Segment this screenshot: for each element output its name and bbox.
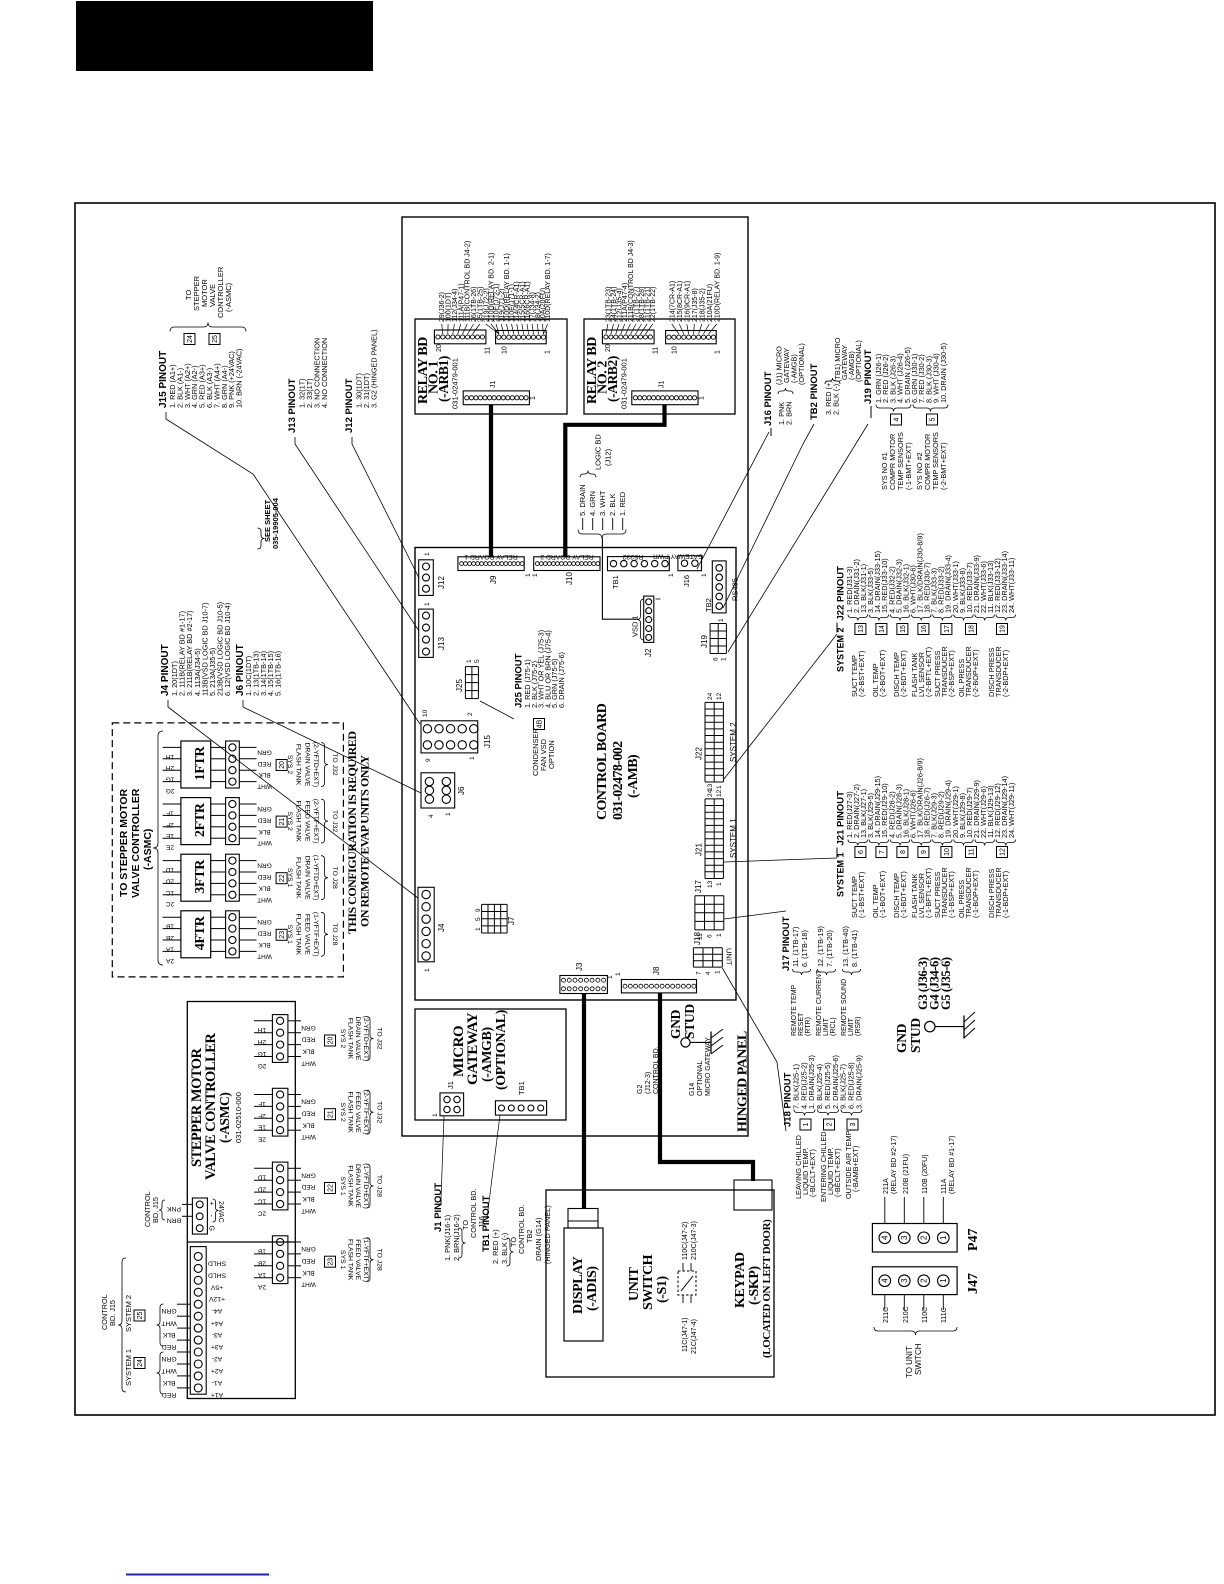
svg-text:SWITCH: SWITCH — [914, 1343, 923, 1375]
svg-text:216(9CR-A1): 216(9CR-A1) — [684, 281, 691, 322]
svg-text:6. 12(VSD LOGIC BD J10-4): 6. 12(VSD LOGIC BD J10-4) — [223, 603, 232, 696]
svg-text:(-2-BST+EXT): (-2-BST+EXT) — [857, 651, 866, 697]
valve unit 1FTR — [181, 741, 211, 788]
svg-text:TB2: TB2 — [704, 598, 713, 612]
svg-text:10: 10 — [672, 346, 679, 354]
svg-text:J15: J15 — [483, 735, 492, 748]
svg-text:(-2-BMT+EXT): (-2-BMT+EXT) — [939, 442, 948, 490]
svg-text:1: 1 — [466, 659, 473, 663]
gnd stud hinged panel — [681, 1038, 690, 1047]
svg-text:1: 1 — [525, 573, 532, 577]
connector J21 grid system 1 — [704, 799, 706, 879]
svg-text:CONTROL BD.: CONTROL BD. — [517, 1204, 526, 1254]
svg-text:22: 22 — [279, 874, 286, 882]
svg-text:4: 4 — [881, 1235, 890, 1240]
svg-text:(2-YFTF+EXT): (2-YFTF+EXT) — [362, 1090, 369, 1135]
svg-text:BLK: BLK — [258, 941, 271, 948]
svg-text:1: 1 — [701, 573, 708, 577]
1FTR connector — [226, 741, 240, 788]
svg-text:4: 4 — [881, 1278, 890, 1283]
svg-text:1: 1 — [716, 933, 723, 937]
svg-text:6. (1TB-18): 6. (1TB-18) — [800, 930, 809, 967]
3FTR wires — [239, 860, 256, 862]
svg-text:J6: J6 — [457, 786, 466, 795]
svg-text:24. WHT(J33-11): 24. WHT(J33-11) — [1007, 558, 1016, 613]
connector J8 on control board — [621, 980, 696, 993]
svg-text:(J12): (J12) — [604, 448, 613, 466]
micro gateway (-AMGB) box — [415, 1009, 566, 1120]
svg-text:13. (1TB-40): 13. (1TB-40) — [841, 926, 850, 967]
svg-text:215(8CR-A1): 215(8CR-A1) — [677, 281, 684, 322]
svg-text:3. WHT: 3. WHT — [598, 490, 607, 516]
svg-text:BLK: BLK — [162, 1331, 175, 1338]
svg-text:J25: J25 — [455, 679, 464, 692]
svg-text:(-2-BSP+EXT): (-2-BSP+EXT) — [947, 650, 956, 697]
svg-text:10: 10 — [422, 709, 429, 717]
svg-text:GRN: GRN — [301, 1245, 316, 1252]
svg-text:2. RED (+): 2. RED (+) — [491, 1229, 500, 1264]
svg-text:(-1-BOT+EXT): (-1-BOT+EXT) — [878, 871, 887, 918]
logic bd brace upper — [580, 471, 596, 478]
svg-text:TO STEPPER MOTOR: TO STEPPER MOTOR — [118, 788, 130, 897]
connector J47 — [872, 1267, 957, 1295]
svg-text:19: 19 — [1000, 625, 1007, 633]
svg-text:(-2-BFTL+EXT): (-2-BFTL+EXT) — [924, 647, 933, 697]
svg-text:FEED VALVE: FEED VALVE — [354, 1092, 361, 1133]
svg-text:J47: J47 — [966, 1273, 981, 1294]
svg-text:2E: 2E — [257, 1136, 266, 1143]
svg-text:1: 1 — [475, 927, 482, 931]
3FTR ref box 22 — [276, 873, 287, 884]
svg-text:DRAIN VALVE: DRAIN VALVE — [303, 743, 310, 787]
svg-text:3FTR: 3FTR — [193, 859, 208, 894]
svg-text:2: 2 — [920, 1278, 929, 1283]
relay board 1 connector J1 — [463, 391, 529, 405]
connector J4 on control board — [418, 887, 434, 962]
svg-text:J19 PINOUT: J19 PINOUT — [863, 349, 874, 404]
svg-text:1: 1 — [803, 1122, 810, 1126]
svg-text:1: 1 — [432, 1113, 439, 1117]
svg-text:DISPLAY: DISPLAY — [571, 1256, 586, 1314]
svg-text:3. G2 (HINGED PANEL): 3. G2 (HINGED PANEL) — [370, 329, 379, 408]
svg-text:1: 1 — [615, 972, 622, 976]
svg-text:J12: J12 — [437, 576, 446, 589]
svg-text:1B: 1B — [258, 1247, 266, 1254]
svg-text:J3: J3 — [575, 962, 584, 971]
svg-text:A4-: A4- — [212, 1307, 223, 1314]
system 1 ref box 24 — [134, 1358, 145, 1369]
svg-text:TB2: TB2 — [525, 1230, 534, 1243]
svg-text:1: 1 — [699, 396, 706, 400]
2FTR connector — [226, 798, 240, 845]
svg-text:FEED VALVE: FEED VALVE — [354, 1239, 361, 1280]
svg-text:(-ASMC): (-ASMC) — [217, 1093, 232, 1143]
svg-text:9: 9 — [921, 850, 928, 854]
svg-text:1: 1 — [939, 1235, 948, 1240]
svg-text:8: 8 — [900, 850, 907, 854]
svg-text:OPTION: OPTION — [547, 740, 556, 769]
svg-text:GND: GND — [894, 1023, 909, 1053]
svg-text:10. DRAIN (J30-5): 10. DRAIN (J30-5) — [939, 343, 948, 403]
svg-text:2F: 2F — [258, 1112, 266, 1119]
system 2 group brace — [157, 1304, 164, 1346]
svg-text:ON REMOTE EVAP UNITS ONLY: ON REMOTE EVAP UNITS ONLY — [358, 755, 372, 927]
svg-text:2E: 2E — [165, 844, 174, 851]
svg-text:TO UNIT: TO UNIT — [905, 1346, 914, 1378]
svg-text:(-1-BST+EXT): (-1-BST+EXT) — [857, 872, 866, 918]
svg-text:A1+: A1+ — [211, 1391, 223, 1398]
svg-text:111C: 111C — [941, 1307, 948, 1323]
svg-text:25: 25 — [212, 335, 219, 343]
svg-text:A2+: A2+ — [211, 1367, 223, 1374]
svg-text:GRN: GRN — [301, 1171, 316, 1178]
svg-text:(-ASMC): (-ASMC) — [142, 829, 154, 870]
relay board 2 (-ARB2) outline — [584, 319, 735, 414]
svg-text:FLASH TANK: FLASH TANK — [347, 1239, 354, 1281]
micro gateway terminal TB1 — [495, 1101, 546, 1115]
svg-text:(-AMB): (-AMB) — [626, 754, 641, 798]
svg-text:2G: 2G — [166, 787, 175, 794]
svg-text:TB1: TB1 — [611, 575, 620, 589]
svg-text:BLK: BLK — [258, 771, 271, 778]
J18 ref boxes 1 2 3 — [800, 1119, 811, 1130]
svg-text:(-2-BOT+EXT): (-2-BOT+EXT) — [878, 650, 887, 697]
1FTR terminal leads — [163, 746, 181, 748]
svg-text:TO J32: TO J32 — [376, 1101, 383, 1123]
svg-text:(-SKP): (-SKP) — [747, 1265, 762, 1305]
svg-text:20: 20 — [279, 761, 286, 769]
svg-text:RED: RED — [257, 873, 271, 880]
system 2 ref box 25 — [134, 1310, 145, 1321]
control board (-AMB) outline — [415, 548, 736, 1001]
svg-text:6. DRAIN (J75-6): 6. DRAIN (J75-6) — [557, 652, 566, 708]
svg-text:+: + — [208, 1202, 215, 1206]
svg-text:25: 25 — [137, 1312, 144, 1320]
relay board 2 connector A pins 20-11 — [602, 330, 654, 344]
svg-text:GRN: GRN — [257, 805, 272, 812]
svg-text:2. BLK: 2. BLK — [608, 493, 617, 516]
svg-text:J16 PINOUT: J16 PINOUT — [763, 371, 774, 426]
svg-text:LIMIT: LIMIT — [848, 1017, 855, 1036]
svg-text:(OPTIONAL): (OPTIONAL) — [854, 340, 863, 382]
svg-text:5: 5 — [930, 417, 937, 421]
svg-text:4FTR: 4FTR — [193, 915, 208, 950]
svg-text:23: 23 — [279, 931, 286, 939]
svg-text:(J12-3): (J12-3) — [645, 1072, 652, 1094]
3FTR connector — [226, 854, 240, 901]
leader J16 — [697, 432, 769, 569]
svg-text:SWITCH: SWITCH — [641, 1254, 656, 1310]
svg-text:REMOTE SOUND: REMOTE SOUND — [841, 979, 848, 1036]
svg-text:031-02478-002: 031-02478-002 — [611, 741, 626, 820]
svg-text:1A: 1A — [257, 1271, 266, 1278]
svg-text:REMOTE TEMP: REMOTE TEMP — [791, 984, 798, 1036]
svg-text:210C: 210C — [903, 1306, 910, 1323]
svg-text:DRAIN (G14): DRAIN (G14) — [534, 1218, 543, 1261]
svg-text:12: 12 — [716, 692, 723, 700]
svg-text:J8: J8 — [652, 966, 661, 975]
svg-text:6: 6 — [713, 657, 720, 661]
outer drawing frame — [75, 203, 1215, 1415]
connector J9 relay board 1 header — [458, 557, 524, 571]
svg-text:14: 14 — [879, 625, 886, 633]
svg-text:GRN: GRN — [257, 748, 272, 755]
svg-text:SYS 1: SYS 1 — [286, 868, 293, 887]
svg-text:(-BLCLT+EXT): (-BLCLT+EXT) — [808, 1149, 817, 1197]
svg-text:J17: J17 — [694, 880, 703, 893]
svg-text:211C: 211C — [883, 1307, 890, 1323]
svg-text:1D: 1D — [258, 1174, 267, 1181]
svg-text:BRN: BRN — [167, 1217, 181, 1224]
svg-text:(RELAY BD #1-17): (RELAY BD #1-17) — [949, 1136, 956, 1195]
svg-text:(1-YFTF+EXT): (1-YFTF+EXT) — [362, 1237, 369, 1282]
svg-text:1G: 1G — [258, 1050, 267, 1057]
micro gateway connector J1 — [440, 1093, 464, 1116]
svg-text:BLK: BLK — [258, 828, 271, 835]
svg-text:TB1: TB1 — [517, 1081, 526, 1095]
svg-text:2B: 2B — [258, 1259, 266, 1266]
svg-text:214(7CR-A1): 214(7CR-A1) — [669, 281, 676, 322]
stepper motor valve controller box — [187, 1002, 295, 1399]
svg-text:(-BAMB+EXT): (-BAMB+EXT) — [851, 1146, 860, 1192]
svg-text:(OPTIONAL): (OPTIONAL) — [494, 1009, 509, 1090]
relay board 1 connector A pins 20-11 — [434, 330, 486, 344]
svg-text:STUD: STUD — [908, 1018, 923, 1053]
svg-text:9: 9 — [425, 758, 432, 762]
svg-text:1: 1 — [445, 812, 452, 816]
svg-text:(RTR): (RTR) — [805, 1017, 812, 1036]
display connector — [568, 1209, 598, 1229]
svg-text:(-1-BDT+EXT): (-1-BDT+EXT) — [899, 871, 908, 918]
leader J22 — [724, 634, 837, 779]
svg-text:24: 24 — [137, 1359, 144, 1367]
svg-text:20: 20 — [436, 344, 443, 352]
svg-text:+12V: +12V — [209, 1295, 226, 1302]
svg-text:(-ARB1): (-ARB1) — [436, 356, 451, 402]
J19 ref box 4 — [891, 414, 902, 425]
1FTR ref box 20 — [276, 760, 287, 771]
stepper motor valve controller reference box (dashed) — [112, 723, 343, 977]
svg-text:4: 4 — [705, 971, 712, 975]
svg-text:RED: RED — [301, 1109, 315, 1116]
keypad connector box — [734, 1180, 772, 1210]
relay board 1 J1 cable to control board J9 — [489, 405, 493, 557]
ASMC terminal group 20 — [272, 1015, 288, 1063]
svg-text:11: 11 — [485, 347, 492, 354]
svg-text:2A: 2A — [165, 957, 174, 964]
svg-text:1: 1 — [607, 975, 614, 979]
svg-text:(-S1): (-S1) — [655, 1275, 670, 1303]
svg-text:DRAIN VALVE: DRAIN VALVE — [303, 856, 310, 900]
connector J2 VSD 1 — [644, 596, 654, 642]
ASMC group ref box 20 — [325, 1035, 336, 1046]
svg-text:110D(RELAY BD. 1-7): 110D(RELAY BD. 1-7) — [545, 253, 552, 322]
relay board 2 connector J1 — [632, 391, 698, 405]
svg-text:(OPTIONAL): (OPTIONAL) — [797, 343, 806, 385]
svg-text:4. NO CONNECTION: 4. NO CONNECTION — [320, 338, 329, 408]
svg-text:2G: 2G — [258, 1062, 267, 1069]
svg-text:GRN: GRN — [257, 918, 272, 925]
svg-text:BLK: BLK — [162, 1379, 175, 1386]
svg-text:1: 1 — [469, 756, 476, 760]
connector J16 gateway pwr — [678, 556, 702, 571]
svg-text:(-ADIS): (-ADIS) — [585, 1266, 600, 1311]
svg-text:210D(RELAY BD. 1-9): 210D(RELAY BD. 1-9) — [714, 253, 721, 322]
svg-text:1E: 1E — [257, 1124, 266, 1131]
svg-text:BLK: BLK — [302, 1269, 315, 1276]
system 1 group brace — [157, 1352, 164, 1394]
svg-text:FLASH TANK: FLASH TANK — [347, 1018, 354, 1060]
leader J15 — [166, 412, 420, 724]
svg-text:110C(J47-2): 110C(J47-2) — [682, 1222, 689, 1260]
svg-text:21: 21 — [328, 1110, 335, 1118]
svg-text:1: 1 — [939, 1278, 948, 1283]
svg-text:(-BECLT+EXT): (-BECLT+EXT) — [833, 1148, 842, 1197]
svg-text:7: 7 — [696, 971, 703, 975]
svg-text:7: 7 — [879, 850, 886, 854]
svg-text:RED: RED — [301, 1183, 315, 1190]
leader J18 — [722, 968, 786, 1131]
svg-text:1: 1 — [424, 968, 431, 972]
svg-text:5: 5 — [475, 917, 482, 921]
svg-text:WHT: WHT — [161, 1319, 176, 1326]
2FTR wires — [239, 803, 256, 805]
svg-text:210A(21FU): 210A(21FU) — [707, 284, 714, 322]
svg-text:6: 6 — [858, 850, 865, 854]
svg-text:SYS 2: SYS 2 — [339, 1029, 346, 1048]
see sheet note — [258, 528, 265, 549]
svg-text:11: 11 — [653, 347, 660, 354]
svg-text:FLASH TANK: FLASH TANK — [347, 1092, 354, 1134]
svg-text:031-02479-001: 031-02479-001 — [451, 358, 460, 409]
svg-text:(LOCATED ON LEFT DOOR): (LOCATED ON LEFT DOOR) — [761, 1219, 773, 1358]
connector J18 grid unit — [692, 948, 694, 967]
connector J10 relay board 2 header — [534, 557, 600, 571]
ASMC terminal group 22 — [272, 1162, 288, 1210]
svg-text:J1: J1 — [446, 1081, 455, 1089]
svg-text:23: 23 — [328, 1258, 335, 1266]
gnd stud 2 — [925, 1021, 935, 1031]
svg-text:24: 24 — [707, 789, 714, 797]
svg-text:SYS 1: SYS 1 — [286, 925, 293, 944]
svg-text:24: 24 — [187, 335, 194, 343]
svg-text:RED: RED — [257, 760, 271, 767]
svg-text:(-ARB2): (-ARB2) — [605, 356, 620, 402]
4FTR wires — [239, 916, 256, 918]
svg-text:SYSTEM 2: SYSTEM 2 — [729, 722, 738, 762]
svg-text:RED: RED — [162, 1391, 176, 1398]
svg-text:FLASH TANK: FLASH TANK — [295, 914, 302, 956]
valve unit 2FTR — [181, 798, 211, 845]
leader J12 — [352, 437, 419, 578]
svg-text:(-1-BFTL+EXT): (-1-BFTL+EXT) — [924, 868, 933, 918]
svg-text:6: 6 — [707, 934, 714, 938]
svg-text:1F: 1F — [258, 1100, 266, 1107]
svg-text:A3-: A3- — [212, 1331, 223, 1338]
svg-text:WHT: WHT — [257, 952, 272, 959]
ASMC terminal group 23 — [272, 1236, 288, 1284]
svg-text:J1: J1 — [490, 381, 497, 389]
svg-text:BD. J15: BD. J15 — [151, 1197, 160, 1223]
svg-text:4: 4 — [428, 814, 435, 818]
valve unit 3FTR — [181, 854, 211, 901]
svg-text:20: 20 — [328, 1037, 335, 1045]
svg-text:A1-: A1- — [212, 1379, 223, 1386]
svg-text:J16: J16 — [682, 575, 691, 587]
svg-text:GRN: GRN — [301, 1098, 316, 1105]
svg-text:1: 1 — [668, 573, 675, 577]
svg-text:2C: 2C — [166, 900, 175, 907]
terminal block TB2 RS485 — [712, 561, 726, 613]
connector J22 grid system 2 — [704, 702, 706, 782]
svg-text:2H: 2H — [258, 1038, 267, 1045]
ASMC reference brace — [153, 731, 163, 965]
svg-text:VALVE CONTROLLER: VALVE CONTROLLER — [130, 788, 142, 898]
page footer link line — [126, 1574, 269, 1576]
leader J4 — [168, 700, 418, 898]
svg-text:211A: 211A — [883, 1178, 890, 1194]
logic bd wire to control board J2 — [602, 538, 637, 619]
logic bd brace lower — [578, 530, 626, 539]
svg-text:FLASH TANK: FLASH TANK — [347, 1165, 354, 1207]
svg-text:3: 3 — [850, 1122, 857, 1126]
J21 sensor ref boxes — [855, 847, 866, 858]
svg-text:FLASH TANK: FLASH TANK — [295, 800, 302, 842]
svg-text:5. 16(1TB-16): 5. 16(1TB-16) — [274, 651, 283, 696]
svg-text:210C(J47-3): 210C(J47-3) — [691, 1221, 698, 1260]
svg-text:STUD: STUD — [682, 1004, 697, 1039]
connector J7 grid — [481, 904, 483, 933]
svg-text:SHLD: SHLD — [208, 1259, 226, 1266]
svg-text:LOGIC BD: LOGIC BD — [594, 434, 603, 470]
svg-text:15: 15 — [900, 625, 907, 633]
svg-text:11. (1TB-17): 11. (1TB-17) — [791, 927, 800, 967]
connector J6 on control board — [421, 773, 455, 808]
svg-text:J13 PINOUT: J13 PINOUT — [287, 378, 298, 433]
svg-text:WHT: WHT — [257, 783, 272, 790]
svg-text:1: 1 — [721, 657, 728, 661]
display (-ADIS) — [564, 1228, 603, 1341]
svg-text:110B (20FU): 110B (20FU) — [922, 1154, 929, 1194]
svg-text:GATEWAY PWR: GATEWAY PWR — [653, 552, 703, 559]
leader J21 — [724, 858, 837, 862]
svg-text:22: 22 — [328, 1184, 335, 1192]
svg-text:2: 2 — [827, 1122, 834, 1126]
svg-text:3: 3 — [900, 1235, 909, 1240]
connector J15 on control board — [421, 721, 478, 753]
svg-text:BLK: BLK — [302, 1121, 315, 1128]
svg-text:J13: J13 — [437, 637, 446, 650]
svg-text:24. WHT(J29-11): 24. WHT(J29-11) — [1007, 783, 1016, 838]
svg-text:(-AMGB): (-AMGB) — [480, 1027, 495, 1082]
condenser fan vsd option label — [534, 719, 545, 730]
J15 ref box 25 — [209, 334, 220, 345]
svg-text:24VAC: 24VAC — [217, 1201, 224, 1223]
svg-text:J10: J10 — [565, 572, 574, 585]
4FTR ref box 23 — [276, 929, 287, 940]
leader J6 — [243, 700, 421, 793]
svg-text:TO J32: TO J32 — [331, 810, 338, 832]
connector J17 grid — [694, 896, 696, 930]
svg-text:5. DRAIN: 5. DRAIN — [578, 484, 587, 516]
svg-text:2: 2 — [467, 712, 474, 716]
svg-text:VSD 1: VSD 1 — [631, 615, 640, 637]
svg-text:(1-YFTD+EXT): (1-YFTD+EXT) — [312, 855, 319, 901]
svg-text:GRN: GRN — [301, 1024, 316, 1031]
svg-text:GND: GND — [668, 1009, 683, 1039]
svg-text:11: 11 — [969, 848, 976, 855]
svg-text:5: 5 — [474, 659, 481, 663]
